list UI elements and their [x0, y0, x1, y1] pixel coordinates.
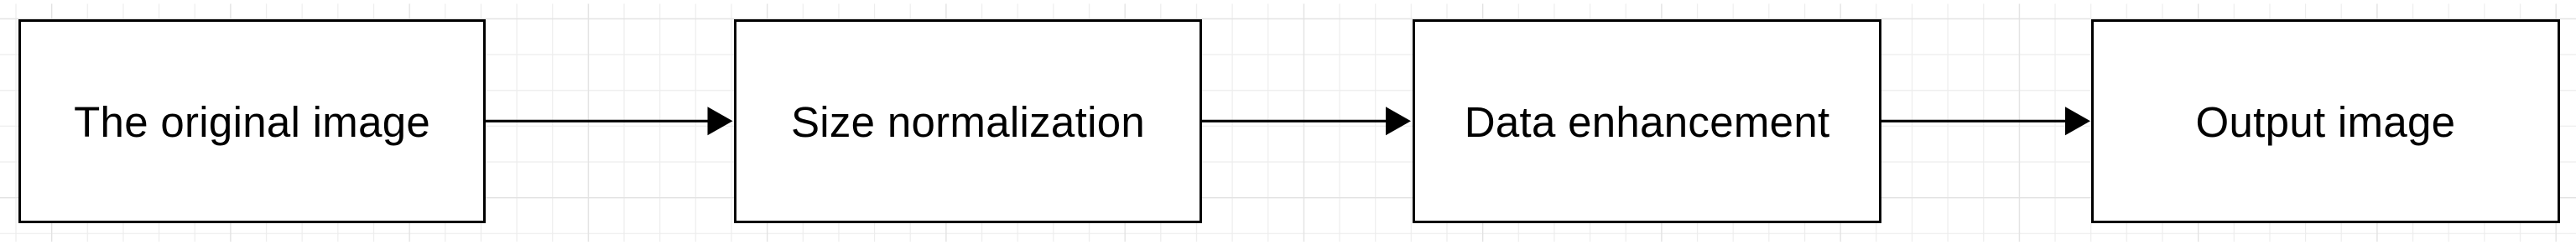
arrow 1 (The original image -> Size normalization) [485, 106, 736, 139]
box: Size normalization [734, 19, 1201, 223]
arrow 2 (Size normalization -> Data enhancement) [1201, 106, 1414, 139]
box: The original image [18, 19, 486, 223]
box: Data enhancement [1413, 19, 1881, 223]
arrow 3 (Data enhancement -> Output image) [1881, 106, 2094, 139]
box: Output image [2091, 19, 2560, 223]
